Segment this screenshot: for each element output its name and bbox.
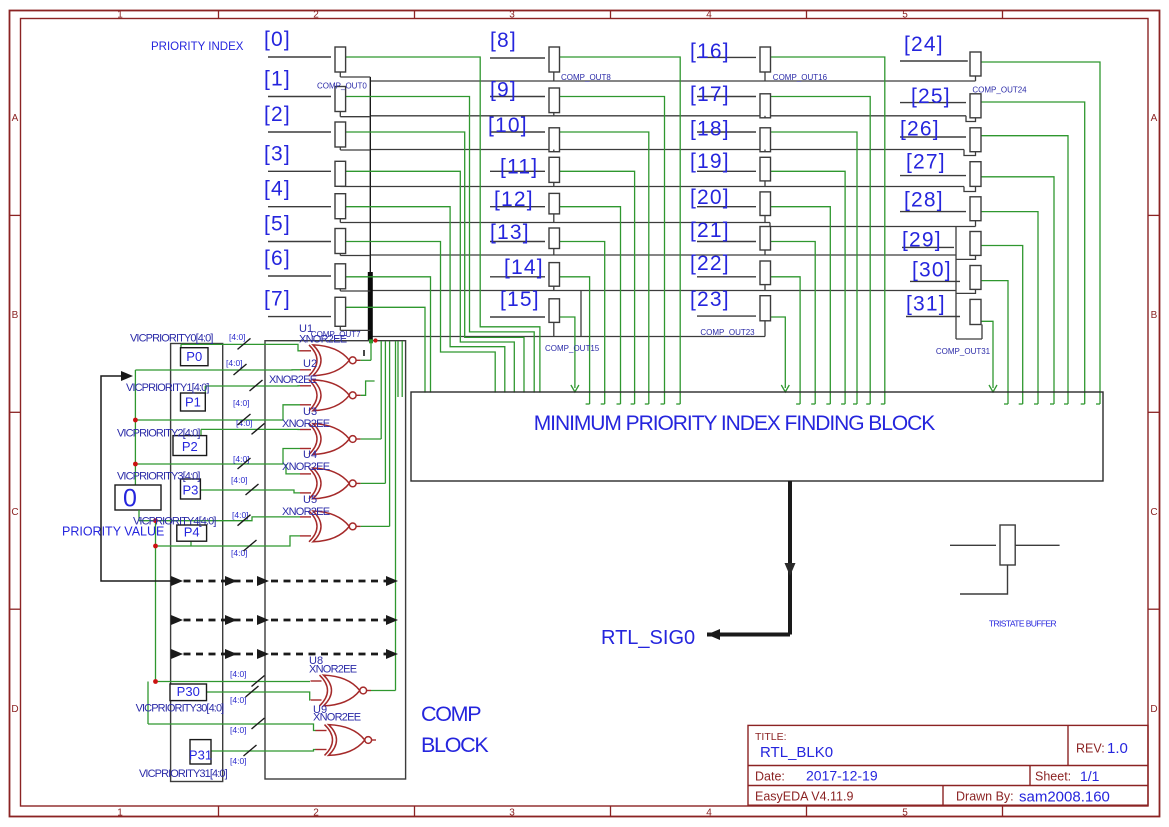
svg-text:VICPRIORITY0[4:0]: VICPRIORITY0[4:0] [130, 333, 213, 345]
svg-text:D: D [1150, 704, 1157, 715]
svg-text:[6]: [6] [264, 247, 291, 270]
svg-text:P1: P1 [185, 395, 201, 410]
svg-text:[25]: [25] [911, 85, 951, 108]
svg-text:COMP_OUT24: COMP_OUT24 [972, 86, 1027, 95]
svg-text:[3]: [3] [264, 142, 291, 165]
svg-text:2017-12-19: 2017-12-19 [806, 768, 878, 784]
svg-text:[30]: [30] [912, 258, 952, 281]
svg-text:A: A [12, 113, 19, 124]
svg-text:VICPRIORITY31[4:0]: VICPRIORITY31[4:0] [139, 768, 228, 780]
svg-text:TITLE:: TITLE: [755, 731, 787, 743]
svg-text:RTL_SIG0: RTL_SIG0 [601, 627, 695, 649]
svg-text:P30: P30 [177, 684, 200, 699]
svg-text:[4:0]: [4:0] [230, 756, 247, 766]
svg-text:[12]: [12] [494, 188, 534, 211]
svg-text:VICPRIORITY3[4:0]: VICPRIORITY3[4:0] [117, 471, 200, 483]
svg-text:[17]: [17] [690, 83, 730, 106]
svg-text:[4:0]: [4:0] [230, 669, 247, 679]
svg-text:U3: U3 [303, 406, 317, 418]
svg-text:XNOR2EE: XNOR2EE [299, 334, 347, 346]
svg-text:COMP_OUT23: COMP_OUT23 [700, 328, 755, 337]
svg-text:3: 3 [509, 808, 515, 819]
svg-text:[23]: [23] [690, 288, 730, 311]
svg-text:COMP_OUT31: COMP_OUT31 [936, 347, 991, 356]
svg-text:2: 2 [313, 10, 319, 21]
svg-text:XNOR2EE: XNOR2EE [309, 664, 357, 676]
svg-text:VICPRIORITY30[4:0]: VICPRIORITY30[4:0] [136, 703, 225, 715]
svg-text:REV:: REV: [1076, 742, 1105, 756]
svg-text:1: 1 [117, 808, 123, 819]
svg-text:[5]: [5] [264, 213, 291, 236]
svg-text:[19]: [19] [690, 150, 730, 173]
svg-text:VICPRIORITY4[4:0]: VICPRIORITY4[4:0] [133, 516, 216, 528]
svg-text:C: C [1150, 507, 1157, 518]
svg-text:Date:: Date: [755, 770, 785, 784]
svg-text:[4:0]: [4:0] [226, 358, 243, 368]
svg-text:U4: U4 [303, 449, 317, 461]
svg-text:0: 0 [123, 485, 137, 513]
svg-text:[2]: [2] [264, 103, 291, 126]
svg-text:D: D [11, 704, 18, 715]
svg-text:XNOR2EE: XNOR2EE [282, 506, 330, 518]
svg-text:TRISTATE BUFFER: TRISTATE BUFFER [989, 619, 1057, 629]
svg-text:VICPRIORITY2[4:0]: VICPRIORITY2[4:0] [117, 428, 200, 440]
svg-text:P31: P31 [189, 748, 212, 763]
svg-text:COMP_OUT8: COMP_OUT8 [561, 73, 611, 82]
svg-text:[4:0]: [4:0] [230, 725, 247, 735]
svg-text:COMP_OUT16: COMP_OUT16 [773, 73, 828, 82]
svg-text:[8]: [8] [490, 29, 517, 52]
svg-text:[13]: [13] [490, 221, 530, 244]
svg-text:Drawn By:: Drawn By: [956, 790, 1014, 804]
svg-text:[14]: [14] [504, 256, 544, 279]
svg-text:COMP_OUT0: COMP_OUT0 [317, 82, 367, 91]
svg-text:BLOCK: BLOCK [421, 733, 489, 757]
svg-text:[7]: [7] [264, 288, 291, 311]
svg-text:5: 5 [902, 808, 908, 819]
svg-text:[0]: [0] [264, 28, 291, 51]
svg-text:XNOR2EE: XNOR2EE [313, 712, 361, 724]
svg-text:[9]: [9] [490, 79, 517, 102]
svg-text:U2: U2 [303, 358, 317, 370]
svg-text:RTL_BLK0: RTL_BLK0 [760, 744, 833, 761]
svg-text:A: A [1151, 113, 1158, 124]
svg-text:[16]: [16] [690, 40, 730, 63]
svg-text:P3: P3 [182, 483, 198, 498]
svg-text:[4:0]: [4:0] [233, 398, 250, 408]
svg-text:U5: U5 [303, 494, 317, 506]
svg-text:XNOR2EE: XNOR2EE [282, 418, 330, 430]
svg-text:B: B [12, 310, 19, 321]
svg-text:B: B [1151, 310, 1158, 321]
svg-text:5: 5 [902, 10, 908, 21]
svg-text:sam2008.160: sam2008.160 [1019, 789, 1110, 806]
svg-text:1.0: 1.0 [1107, 740, 1128, 757]
svg-text:[24]: [24] [904, 33, 944, 56]
svg-text:[4:0]: [4:0] [233, 454, 250, 464]
svg-text:1: 1 [117, 10, 123, 21]
svg-text:[4:0]: [4:0] [231, 475, 248, 485]
svg-text:XNOR2EE: XNOR2EE [282, 461, 330, 473]
svg-text:[20]: [20] [690, 186, 730, 209]
svg-text:EasyEDA V4.11.9: EasyEDA V4.11.9 [755, 790, 853, 804]
svg-text:2: 2 [313, 808, 319, 819]
svg-text:[10]: [10] [488, 114, 528, 137]
svg-text:[27]: [27] [906, 151, 946, 174]
svg-text:C: C [11, 507, 18, 518]
svg-text:COMP_OUT15: COMP_OUT15 [545, 344, 600, 353]
svg-text:[18]: [18] [690, 118, 730, 141]
svg-text:4: 4 [706, 10, 712, 21]
svg-text:[15]: [15] [500, 288, 540, 311]
svg-text:P2: P2 [182, 439, 198, 454]
svg-text:[22]: [22] [690, 252, 730, 275]
svg-text:P0: P0 [186, 349, 202, 364]
svg-text:[4:0]: [4:0] [229, 332, 246, 342]
svg-text:[1]: [1] [264, 68, 291, 91]
svg-text:1/1: 1/1 [1080, 768, 1100, 784]
svg-text:[11]: [11] [500, 155, 538, 178]
svg-text:XNOR2EE: XNOR2EE [269, 374, 317, 386]
svg-text:3: 3 [509, 10, 515, 21]
svg-text:VICPRIORITY1[4:0]: VICPRIORITY1[4:0] [126, 382, 209, 394]
svg-text:COMP: COMP [421, 702, 481, 726]
svg-text:[31]: [31] [906, 292, 946, 315]
svg-text:[4]: [4] [264, 178, 291, 201]
svg-text:PRIORITY INDEX: PRIORITY INDEX [151, 41, 244, 53]
svg-text:[28]: [28] [904, 189, 944, 212]
svg-text:4: 4 [706, 808, 712, 819]
svg-text:Sheet:: Sheet: [1035, 770, 1071, 784]
svg-text:[21]: [21] [690, 219, 730, 242]
svg-text:[29]: [29] [902, 228, 942, 251]
svg-text:[4:0]: [4:0] [230, 695, 247, 705]
svg-text:[26]: [26] [900, 118, 940, 141]
svg-text:MINIMUM PRIORITY INDEX FINDING: MINIMUM PRIORITY INDEX FINDING BLOCK [534, 412, 936, 435]
